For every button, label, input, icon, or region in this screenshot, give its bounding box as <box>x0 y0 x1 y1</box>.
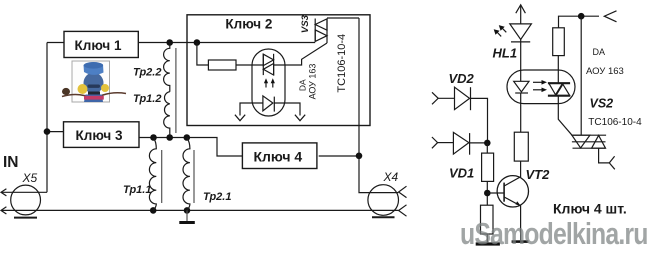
svg-text:Ключ 1: Ключ 1 <box>75 38 122 53</box>
transformer winding Tr2.2 <box>164 43 170 92</box>
opto light arrow 2 <box>533 89 543 91</box>
svg-text:VD1: VD1 <box>449 165 474 180</box>
wire X5 top chord <box>1 191 47 193</box>
svg-text:ТС106-10-4: ТС106-10-4 <box>588 117 642 128</box>
svg-text:Ключ 4 шт.: Ключ 4 шт. <box>553 201 627 217</box>
node junction X4 feed <box>356 153 363 160</box>
node A junction <box>484 140 491 147</box>
phototriac triangle lower <box>263 64 273 76</box>
opto phototriac triangle left <box>549 83 564 95</box>
triac VS3 triangle lower <box>315 30 327 42</box>
node junction Tr1.1 bottom <box>150 207 157 214</box>
svg-text:Ключ 3: Ключ 3 <box>76 128 123 143</box>
triac VS2 triangle left <box>572 135 590 148</box>
wire VS3 top out <box>327 17 359 19</box>
triac VS2 bottom line <box>573 147 606 149</box>
triac VS3 right rail <box>326 19 328 44</box>
wire HL1 column <box>520 5 522 24</box>
wire Ключ3 left lead <box>47 131 64 133</box>
svg-text:VD2: VD2 <box>449 71 475 86</box>
opto LED <box>263 96 273 111</box>
svg-text:IN: IN <box>3 154 19 171</box>
opto LED (right) <box>514 81 529 92</box>
wire bottom bus <box>1 209 398 211</box>
VT2 emitter <box>504 197 520 240</box>
svg-text:Ключ 4: Ключ 4 <box>253 149 302 165</box>
svg-text:DA: DA <box>593 47 606 57</box>
wire phototriac output <box>274 43 327 65</box>
down arrow right <box>295 115 305 121</box>
node junction Tr1.2 bottom <box>166 134 173 141</box>
svg-text:VT2: VT2 <box>526 167 551 182</box>
cartoon mascot image <box>62 61 126 102</box>
transformer winding Tr1.1 <box>149 138 156 211</box>
optocoupler DA stadium (right) <box>507 70 575 104</box>
ground 2 (VT2 emitter) <box>512 240 529 243</box>
wire VS2 MT1 out <box>599 148 610 163</box>
power arrow up <box>516 5 526 13</box>
wire Ключ4 output to X4 <box>319 155 359 157</box>
svg-text:VS2: VS2 <box>590 97 614 111</box>
diode VD2 <box>455 87 470 109</box>
LED HL1 <box>510 24 532 40</box>
box Ключ4 <box>242 143 317 169</box>
phototriac left rail <box>262 54 264 75</box>
node junction bus-Ключ3 <box>44 128 51 135</box>
transformer winding Tr1.2 <box>164 92 170 138</box>
svg-text:X5: X5 <box>22 171 38 185</box>
node junction Tr1.1 top <box>150 134 157 141</box>
svg-text:АОУ 163: АОУ 163 <box>586 66 624 77</box>
resistor collector <box>514 132 528 161</box>
triac VS2 top line <box>571 134 606 136</box>
wire node A to divider <box>486 143 488 153</box>
resistor divider lower <box>481 205 494 234</box>
connector pin chevron bottom right <box>609 156 615 169</box>
node junction ground <box>184 207 191 214</box>
wire Ключ3 output <box>139 138 243 157</box>
svg-text:Тр2.1: Тр2.1 <box>203 191 231 203</box>
svg-text:HL1: HL1 <box>493 45 518 60</box>
watermark <box>460 217 648 252</box>
connector X4 pin chevron top <box>399 186 407 197</box>
wire VD2 anode <box>438 97 454 99</box>
wire VS3 to X4 vertical <box>359 18 398 193</box>
connector X5 pin chevron top <box>1 189 6 196</box>
transformer winding Tr2.1 <box>183 138 190 211</box>
HL1 emission arrow 2 <box>503 28 507 32</box>
transformer core Tr2 lower <box>193 150 195 203</box>
transistor VT2 <box>497 176 528 207</box>
wire VD2 to node A <box>471 98 488 142</box>
connector pin chevron top right <box>604 11 616 22</box>
wire divider middle <box>486 181 488 205</box>
node B junction (VT2 base) <box>484 190 491 197</box>
svg-text:DA: DA <box>298 79 308 91</box>
diode VD1 <box>453 132 469 154</box>
wire phototriac top to resistor <box>557 56 559 84</box>
connector X4 pin chevron bottom <box>399 205 407 216</box>
svg-text:ТС106-10-4: ТС106-10-4 <box>336 34 348 93</box>
wire base <box>487 192 504 194</box>
resistor divider upper <box>482 153 494 181</box>
phototriac triangle upper <box>263 54 273 65</box>
ground <box>186 210 188 221</box>
light arrow 1 <box>265 81 267 88</box>
wire Ключ1 output to VS3 <box>138 42 315 44</box>
wire opto LED to collector resistor <box>520 93 522 132</box>
opto LED wire right <box>274 103 300 116</box>
box Ключ1 <box>64 31 138 57</box>
node junction resistor feed <box>194 39 201 46</box>
svg-text:VS3: VS3 <box>300 14 311 33</box>
HL1 emission arrow 1 <box>497 33 501 37</box>
opto light arrow 1 <box>533 81 543 83</box>
svg-text:X4: X4 <box>383 170 399 184</box>
triac VS2 mid wire <box>572 141 606 143</box>
opto phototriac top bar <box>548 82 570 84</box>
ground 1 <box>476 242 500 245</box>
svg-text:АОУ 163: АОУ 163 <box>307 64 317 100</box>
triac VS3 left rail <box>314 19 316 42</box>
VT2 collector <box>504 161 520 186</box>
svg-text:Ключ 2: Ключ 2 <box>225 16 272 31</box>
transformer core Tr2/Tr1 upper <box>175 48 177 133</box>
triac VS3 triangle upper <box>315 19 327 30</box>
box Ключ2 <box>187 15 370 126</box>
resistor top right <box>553 28 565 56</box>
opto phototriac triangle right <box>555 84 570 96</box>
connector X5 pin chevron bottom <box>1 207 6 214</box>
node junction top right <box>578 13 585 20</box>
connector X4 <box>368 185 399 216</box>
connector pin chevron VD2 input <box>432 92 438 104</box>
resistor in Ключ2 <box>197 43 209 66</box>
connector pin chevron VD1 input <box>432 137 438 148</box>
box Ключ3 <box>64 122 140 148</box>
wire VD1 to node A <box>470 142 488 144</box>
wire VS2 MT2 <box>580 16 582 135</box>
svg-text:Тр1.1: Тр1.1 <box>123 184 151 196</box>
wire to ground 1 <box>486 234 488 242</box>
svg-text:Тр1.2: Тр1.2 <box>133 93 161 105</box>
transformer core Tr1 lower <box>161 150 163 203</box>
opto LED wire left <box>240 103 263 116</box>
down arrow left <box>235 115 245 121</box>
opto phototriac bottom bar <box>548 95 570 97</box>
triac VS2 triangle right <box>592 135 606 148</box>
node junction T1 top (Tr2.2 top) <box>166 39 173 46</box>
wire left vertical bus <box>46 43 48 193</box>
wire VD1 anode <box>438 142 454 144</box>
svg-text:Тр2.2: Тр2.2 <box>133 67 161 79</box>
wire resistor to optocoupler <box>236 64 263 66</box>
light arrow 2 <box>272 81 274 88</box>
optocoupler DA stadium (Ключ2) <box>252 49 285 116</box>
node junction Tr2.1 top <box>184 134 191 141</box>
phototriac right rail <box>273 54 275 75</box>
wire phototriac bottom to VS2 gate <box>558 96 572 136</box>
connector X5 <box>11 185 41 215</box>
wire HL1 to opto LED <box>520 40 522 82</box>
wire Ключ1 left lead <box>47 42 64 44</box>
wire top feed <box>559 16 600 28</box>
